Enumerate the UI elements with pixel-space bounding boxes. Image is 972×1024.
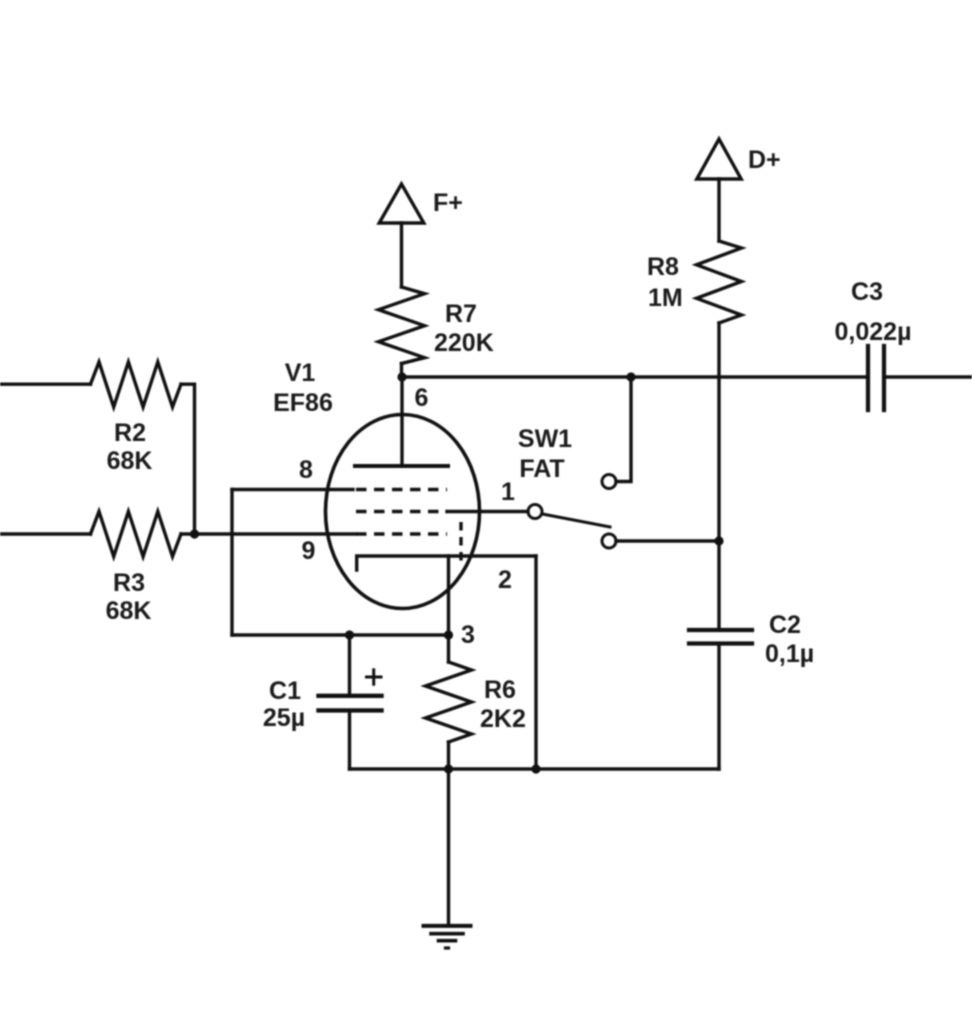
svg-text:SW1: SW1 [518,425,572,453]
wire upper throw to plate line [616,377,631,482]
wire ground drop [447,769,450,925]
wire pin 3 lead [447,556,450,662]
svg-text:FAT: FAT [519,455,564,483]
node junction upper throw on plate line [626,372,635,381]
tube grid row g2 (pin 1) [356,510,447,513]
tube grid row g3 (pin 8) [356,488,447,491]
svg-text:R8: R8 [647,253,679,281]
wire pin 1 lead to switch [447,510,528,513]
wire pin 8 lead [232,488,353,491]
node junction R6 bottom [444,764,453,773]
wire C2 to bottom rail [717,644,720,770]
node junction R2/R3 [190,529,199,538]
capacitor C2 plate bottom [689,641,752,645]
wire pin 6 lead [400,377,403,464]
wire pin8 down-link [230,490,233,636]
svg-text:0,1µ: 0,1µ [765,640,814,668]
switch SW1 lower throw contact [602,534,616,548]
wire plate line to C3 [402,375,868,378]
svg-text:V1: V1 [285,359,316,387]
tube suppressor dashed lead [459,522,462,566]
capacitor C1 polarity plus [367,670,382,684]
resistor R3 [91,512,182,557]
node plate junction [397,372,406,381]
node junction C1 top [345,630,354,639]
svg-text:2K2: 2K2 [480,705,526,733]
capacitor C3 plate right [882,346,886,410]
svg-text:R3: R3 [113,569,145,597]
svg-text:2: 2 [498,566,512,594]
tube V1 envelope [326,415,480,609]
tube anode bar [355,464,448,468]
switch SW1 pole contact [528,505,542,519]
svg-text:C3: C3 [851,278,883,306]
wire R8 to C2 [717,323,720,630]
tube grid row g1 (pin 9) [356,532,447,535]
wire D+ to R8 [717,179,720,241]
svg-text:3: 3 [461,621,475,649]
capacitor C3 plate left [866,346,870,410]
svg-text:R6: R6 [484,676,516,704]
svg-text:25µ: 25µ [263,704,305,732]
svg-text:6: 6 [415,384,429,412]
wire R6 to rail [447,742,450,769]
wire input2 to R3 [0,532,91,535]
node junction pin3 [444,630,453,639]
wire C3 to right edge [884,375,972,378]
node junction pin2 bottom [531,764,540,773]
svg-text:68K: 68K [106,597,152,625]
wire pin 2 drop [534,556,537,769]
svg-text:D+: D+ [748,146,781,174]
tube cathode bar with pin2 lead run [357,556,536,570]
resistor R7 [379,287,425,364]
wire C1 top lead [348,635,351,696]
wire F+ to R7 [400,223,403,287]
power F+ [379,184,424,223]
svg-text:0,022µ: 0,022µ [835,318,912,346]
resistor R8 [697,241,742,323]
resistor R6 [426,662,472,742]
wire R3 output to tube grid pin 9 [181,532,356,535]
wire R2 to corner down to node [181,384,195,534]
wire input1 to R2 [0,383,91,386]
svg-text:C1: C1 [269,677,301,705]
svg-text:1: 1 [501,478,515,506]
capacitor C2 plate top [689,628,752,632]
capacitor C1 plate top [319,694,382,698]
ground symbol [424,926,471,948]
svg-text:8: 8 [299,456,313,484]
wire bottom rail [350,767,720,770]
svg-text:68K: 68K [107,447,153,475]
svg-text:R2: R2 [114,419,146,447]
capacitor C1 plate bottom [319,708,382,712]
wire cathode row to pin3 node [232,633,449,636]
svg-text:9: 9 [302,537,316,565]
resistor R2 [91,362,182,407]
switch SW1 lever [543,514,611,527]
svg-text:220K: 220K [434,329,494,357]
wire R7 to plate node [400,364,403,378]
svg-text:C2: C2 [769,611,801,639]
svg-text:F+: F+ [433,189,463,217]
svg-text:EF86: EF86 [273,389,333,417]
switch SW1 upper throw contact [602,475,616,489]
wire C1 bottom lead [348,710,351,769]
svg-text:1M: 1M [648,284,683,312]
svg-text:R7: R7 [445,300,477,328]
wire lower throw to R8/C2 rail [616,539,719,542]
power D+ [697,139,741,179]
node junction lower throw [714,536,723,545]
